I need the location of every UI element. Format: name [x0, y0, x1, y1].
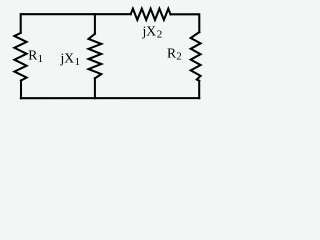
svg-text:jX: jX — [60, 51, 75, 66]
svg-text:2: 2 — [176, 51, 182, 63]
svg-text:jX: jX — [142, 23, 157, 38]
svg-text:1: 1 — [75, 56, 81, 68]
svg-text:1: 1 — [38, 53, 44, 65]
svg-text:2: 2 — [157, 29, 163, 41]
